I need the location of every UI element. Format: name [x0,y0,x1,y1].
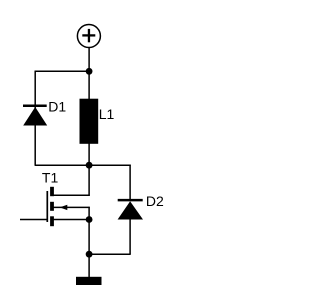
node B [86,162,93,169]
node S [86,216,93,223]
wire L1 to node B [88,144,90,166]
node C [86,251,93,258]
wire gate lead [20,219,47,221]
ground [76,277,102,285]
wire node B right [89,164,131,166]
wire supply to node A [88,48,90,72]
wire body/arrow lead [53,206,90,208]
node A [86,68,93,75]
diode D2 [118,200,143,219]
wire node B down to drain corner [88,165,90,196]
diode D1 [23,106,47,126]
wire node C down to ground [88,254,90,277]
svg-text:D1: D1 [48,98,66,114]
wire arrow corner down to node S [88,207,90,220]
supply source V+ [77,25,100,48]
wire node C right [89,253,131,255]
transistor T1 [47,187,67,226]
wire D2 branch top [129,165,131,200]
svg-text:D2: D2 [146,193,164,209]
wire D2 branch bottom [129,220,131,255]
wire source lead [53,219,89,221]
svg-text:T1: T1 [42,169,59,185]
inductor L1 [80,99,99,144]
wire node B left [35,164,90,166]
svg-text:L1: L1 [99,106,115,122]
wire drain lead [53,194,90,196]
wire node A left [35,70,90,72]
wire node S down to node C [88,220,90,255]
wire left branch down [34,71,36,166]
wire node A to L1 [88,71,90,99]
